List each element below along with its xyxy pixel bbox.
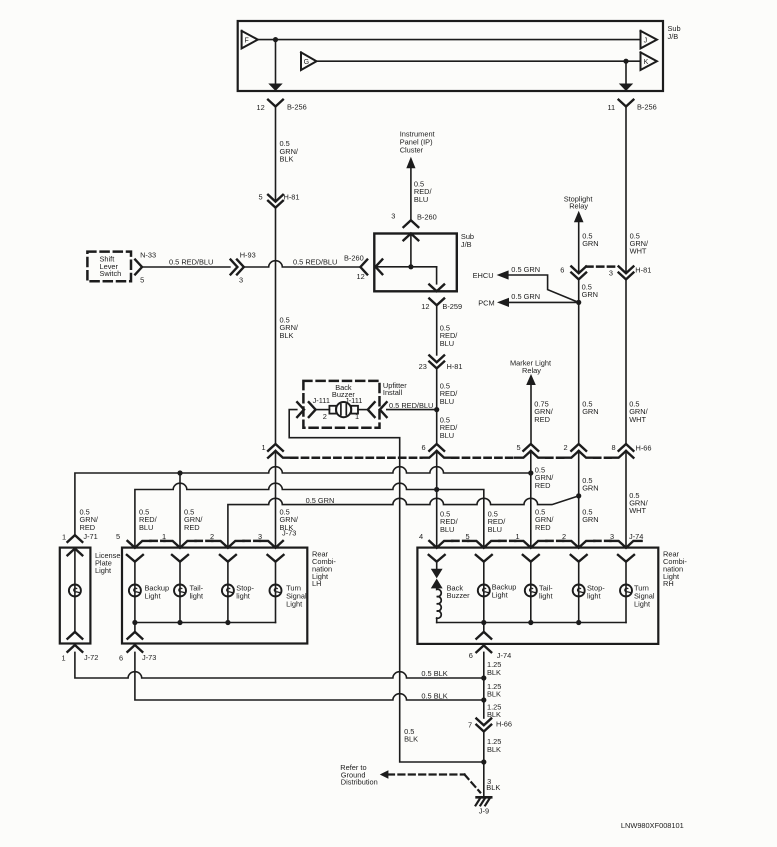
internal connector fork bbox=[127, 555, 143, 562]
shift lever switch (dashed box) bbox=[87, 252, 131, 282]
svg-text:12: 12 bbox=[421, 302, 429, 311]
svg-text:Install: Install bbox=[383, 388, 403, 397]
back buzzer RH (sounder + coil) bbox=[436, 562, 438, 570]
connector 12 B-260 bbox=[360, 260, 367, 275]
wire 0.5 GRN down to EHCU/PCM tap bbox=[578, 279, 580, 443]
wire 0.5 GRN/RED tail-light bus (bus A) bbox=[75, 467, 531, 535]
dashed tie between connector 6 and connector 3 H-81 bbox=[586, 265, 618, 268]
wire 0.5 RED/BLU backup bus (bus B) bbox=[135, 483, 484, 547]
svg-text:0.5 RED/BLU: 0.5 RED/BLU bbox=[389, 401, 433, 410]
svg-text:BLU: BLU bbox=[488, 525, 502, 534]
svg-text:J/B: J/B bbox=[461, 240, 472, 249]
wire 0.5 BLK license ground (bus 1) bbox=[75, 652, 484, 678]
svg-text:H-81: H-81 bbox=[447, 362, 463, 371]
arrow out of Sub J/B at pin 12 bbox=[268, 84, 282, 92]
svg-text:Light: Light bbox=[634, 599, 650, 608]
svg-text:H-81: H-81 bbox=[284, 192, 300, 201]
svg-text:5: 5 bbox=[466, 532, 470, 541]
internal wire up to pin 3 bbox=[410, 234, 412, 267]
svg-text:Distribution: Distribution bbox=[341, 778, 378, 787]
svg-text:5: 5 bbox=[259, 192, 263, 201]
svg-text:BLK: BLK bbox=[280, 154, 294, 163]
svg-text:3: 3 bbox=[391, 212, 395, 221]
connector pin 2 J-74 bbox=[563, 541, 579, 548]
connector 8 H-66 bbox=[619, 444, 634, 451]
wire 0.5 GRN stop bus (bus C) bbox=[228, 496, 579, 547]
svg-text:light: light bbox=[236, 591, 250, 600]
svg-text:BLK: BLK bbox=[486, 783, 500, 792]
svg-text:light: light bbox=[539, 591, 553, 600]
svg-text:J-72: J-72 bbox=[84, 653, 98, 662]
arrow out of Sub J/B at pin 11 bbox=[619, 84, 633, 92]
internal junction dot bbox=[408, 264, 413, 269]
svg-text:BLK: BLK bbox=[280, 331, 294, 340]
arrow out of Sub J/B at pin 3 (up) bbox=[404, 234, 419, 241]
svg-text:0.5 BLK: 0.5 BLK bbox=[421, 692, 447, 701]
svg-text:J/B: J/B bbox=[668, 32, 679, 41]
connector 5 H-81 bbox=[268, 195, 283, 202]
wire 0.5 GRN/BLK from H-81 down to H-66 bbox=[275, 208, 277, 444]
internal connector fork bbox=[571, 555, 587, 562]
svg-text:6: 6 bbox=[560, 265, 564, 274]
svg-text:H-93: H-93 bbox=[240, 251, 256, 260]
wire 0.5 RED/BLU from B-259 to H-81 bbox=[436, 305, 438, 355]
svg-text:3: 3 bbox=[609, 268, 613, 277]
svg-text:GRN: GRN bbox=[582, 484, 598, 493]
internal connector fork bbox=[429, 555, 445, 562]
internal connector fork bbox=[172, 555, 188, 562]
connector 6 H-66 bbox=[429, 444, 444, 451]
junction box Sub J/B (top) bbox=[238, 21, 663, 91]
svg-text:1: 1 bbox=[162, 532, 166, 541]
junction dot ground splice bbox=[481, 759, 486, 764]
svg-text:K: K bbox=[644, 59, 649, 66]
svg-text:Relay: Relay bbox=[522, 366, 541, 375]
svg-text:BLK: BLK bbox=[487, 710, 501, 719]
svg-text:2: 2 bbox=[210, 532, 214, 541]
svg-text:BLK: BLK bbox=[487, 690, 501, 699]
wire 1.25 BLK main ground bbox=[483, 652, 485, 718]
connector pin 2 J-73 bbox=[212, 541, 228, 548]
svg-text:B-256: B-256 bbox=[637, 103, 657, 112]
svg-text:RED: RED bbox=[184, 523, 200, 532]
internal connector fork bbox=[268, 555, 284, 562]
wire H-66 1 to LH turn signal (0.5 GRN/BLK) bbox=[275, 451, 277, 547]
svg-text:0.5 BLK: 0.5 BLK bbox=[421, 669, 447, 678]
connector pin 1 J-73 bbox=[164, 541, 180, 548]
connector pin 5 J-74 bbox=[468, 541, 484, 548]
svg-text:BLU: BLU bbox=[440, 397, 454, 406]
junction dot tail branch LH bbox=[177, 470, 182, 475]
internal wire down to pin 12 bbox=[436, 267, 438, 284]
svg-text:WHT: WHT bbox=[629, 415, 646, 424]
junction dot bus2 to main BLK bbox=[481, 697, 486, 702]
license plate light unit box bbox=[60, 548, 91, 644]
backup light bulb RH bbox=[483, 562, 485, 623]
wire 0.5 RED/BLU from RED/BLU column to buzzer bbox=[387, 409, 437, 411]
svg-text:H-81: H-81 bbox=[635, 265, 651, 274]
connector 1 J-72 (bottom) bbox=[68, 632, 83, 639]
wire 0.5 GRN/BLK from B-256 to H-81 bbox=[275, 107, 277, 202]
svg-text:7: 7 bbox=[468, 720, 472, 729]
svg-text:23: 23 bbox=[419, 362, 427, 371]
connector pin 5 J-73 bbox=[128, 541, 135, 548]
svg-text:0.5 RED/BLU: 0.5 RED/BLU bbox=[293, 257, 337, 266]
RH internal ground bus bbox=[437, 622, 626, 624]
svg-text:WHT: WHT bbox=[630, 247, 647, 256]
junction dot EHCU/PCM tap bbox=[576, 300, 581, 305]
connector 3 H-81 (right column) bbox=[619, 266, 634, 273]
svg-text:8: 8 bbox=[612, 443, 616, 452]
connector N-33 pin 5 bbox=[135, 260, 142, 275]
svg-text:6: 6 bbox=[422, 443, 426, 452]
svg-text:1: 1 bbox=[262, 443, 266, 452]
svg-text:12: 12 bbox=[257, 103, 265, 112]
connector 11 B-256 bbox=[619, 100, 634, 107]
internal wire across Sub J/B bbox=[376, 266, 437, 268]
wire 0.5 RED/BLU from shift lever switch to H-93 bbox=[142, 266, 230, 268]
svg-text:J-73: J-73 bbox=[282, 529, 296, 538]
junction dot on F-J wire bbox=[273, 37, 278, 42]
LH internal ground bus bbox=[135, 622, 276, 624]
svg-text:2: 2 bbox=[323, 412, 327, 421]
wire H-66 2 to RH pin 2 (0.5 GRN) bbox=[578, 451, 580, 547]
svg-text:Cluster: Cluster bbox=[400, 146, 424, 155]
connector pin 3 J-74 bbox=[610, 541, 626, 548]
backup light bulb LH bbox=[129, 585, 141, 597]
svg-text:1: 1 bbox=[62, 653, 66, 662]
connector J-74 row pins 4 5 1 2 3 bbox=[452, 540, 468, 543]
svg-text:6: 6 bbox=[469, 651, 473, 660]
connector triangle J bbox=[641, 31, 657, 49]
LH bottom exit to connector 6 J-73 bbox=[134, 623, 136, 632]
internal connector fork bbox=[476, 555, 492, 562]
svg-text:1: 1 bbox=[516, 532, 520, 541]
connector 3 H-93 bbox=[231, 260, 238, 275]
connector 2 H-66 bbox=[571, 444, 586, 451]
internal connector fork bbox=[220, 555, 236, 562]
svg-text:2: 2 bbox=[562, 532, 566, 541]
wire LH tail-light drop bbox=[179, 473, 181, 547]
tail-light bulb LH bbox=[174, 585, 186, 597]
svg-text:BLU: BLU bbox=[414, 195, 428, 204]
internal connector fork bbox=[618, 555, 634, 562]
rear combination light RH box bbox=[417, 548, 658, 644]
RH bottom exit to connector 6 J-74 bbox=[483, 623, 485, 632]
junction dot stop feed bbox=[576, 493, 581, 498]
connector 23 H-81 bbox=[429, 355, 444, 362]
svg-text:2: 2 bbox=[564, 443, 568, 452]
svg-text:J-71: J-71 bbox=[83, 532, 97, 541]
wire 0.5 RED/BLU from H-81 down to H-66 bbox=[436, 368, 438, 443]
svg-text:5: 5 bbox=[116, 532, 120, 541]
junction dot bus1 to main BLK bbox=[481, 675, 486, 680]
wire F to J bbox=[258, 39, 641, 41]
arrow out of Sub J/B at pin 12 (down) bbox=[429, 285, 444, 292]
junction dot back-buzzer tap bbox=[434, 407, 439, 412]
svg-text:Light: Light bbox=[145, 591, 161, 600]
svg-text:Light: Light bbox=[95, 566, 111, 575]
svg-text:H-66: H-66 bbox=[496, 719, 512, 728]
svg-text:3: 3 bbox=[239, 275, 243, 284]
svg-text:RED: RED bbox=[535, 523, 551, 532]
junction box Sub J/B (small) bbox=[374, 234, 457, 292]
wire down from G-K wire to box edge bbox=[625, 61, 627, 84]
connector pin 1 J-74 bbox=[515, 541, 531, 548]
connector pin 3 J-73 bbox=[260, 541, 276, 548]
svg-text:F: F bbox=[245, 37, 249, 44]
svg-text:LNW980XF008101: LNW980XF008101 bbox=[621, 821, 684, 830]
svg-text:PCM: PCM bbox=[478, 299, 494, 308]
svg-text:BLU: BLU bbox=[440, 339, 454, 348]
arrow to Instrument Panel (IP) Cluster bbox=[406, 157, 415, 169]
svg-text:BLU: BLU bbox=[440, 431, 454, 440]
svg-text:4: 4 bbox=[419, 532, 423, 541]
stop-light bulb RH bbox=[578, 562, 580, 623]
connector triangle F bbox=[242, 31, 258, 49]
svg-text:G: G bbox=[304, 59, 309, 66]
svg-text:5: 5 bbox=[517, 443, 521, 452]
turn signal light bulb LH bbox=[270, 585, 282, 597]
svg-text:3: 3 bbox=[610, 532, 614, 541]
svg-text:0.5 RED/BLU: 0.5 RED/BLU bbox=[169, 258, 213, 267]
wire 0.5 GRN/WHT from B-256 to H-81 bbox=[625, 107, 627, 274]
svg-text:J-74: J-74 bbox=[497, 651, 511, 660]
svg-text:GRN: GRN bbox=[582, 515, 598, 524]
ground J-9 bbox=[477, 796, 492, 799]
svg-text:BLK: BLK bbox=[487, 745, 501, 754]
harness connector row H-66 (dashed tie) bbox=[291, 456, 421, 459]
arrow into Sub J/B from B-260 bbox=[376, 259, 383, 274]
svg-text:light: light bbox=[190, 591, 204, 600]
wire 0.5 RED/BLU from H-93 to B-260 (hops over GRN/BLK wire) bbox=[244, 261, 361, 267]
connector 6 (stoplight relay line) bbox=[571, 266, 586, 273]
svg-text:6: 6 bbox=[119, 653, 123, 662]
wire 0.5 RED/BLU up to IP cluster bbox=[410, 168, 412, 220]
svg-text:Light: Light bbox=[286, 599, 302, 608]
svg-text:light: light bbox=[587, 591, 601, 600]
svg-text:3: 3 bbox=[258, 532, 262, 541]
connector 3 B-260 bbox=[404, 220, 419, 227]
svg-text:B-256: B-256 bbox=[287, 103, 307, 112]
svg-text:0.5 GRN: 0.5 GRN bbox=[306, 496, 335, 505]
turn signal light bulb RH bbox=[625, 562, 627, 623]
svg-text:WHT: WHT bbox=[629, 506, 646, 515]
junction dot on G-K wire bbox=[623, 59, 628, 64]
junction dot tail bus to RH column bbox=[528, 470, 533, 475]
svg-text:RH: RH bbox=[663, 579, 674, 588]
connector 7 H-66 bbox=[476, 719, 491, 726]
svg-text:0.5 GRN: 0.5 GRN bbox=[511, 292, 540, 301]
svg-text:Buzzer: Buzzer bbox=[447, 591, 471, 600]
stop-light bulb LH bbox=[222, 585, 234, 597]
svg-text:EHCU: EHCU bbox=[473, 271, 494, 280]
wire G to K bbox=[317, 60, 641, 62]
svg-text:BLK: BLK bbox=[404, 735, 418, 744]
svg-text:BLU: BLU bbox=[440, 525, 454, 534]
svg-text:BLK: BLK bbox=[487, 668, 501, 677]
svg-text:Light: Light bbox=[492, 590, 508, 599]
svg-text:Relay: Relay bbox=[569, 202, 588, 211]
tail-light bulb RH bbox=[530, 562, 532, 623]
svg-text:H-66: H-66 bbox=[636, 443, 652, 452]
license plate light bulb bbox=[69, 585, 81, 597]
svg-text:GRN: GRN bbox=[582, 407, 598, 416]
svg-text:RED: RED bbox=[534, 415, 550, 424]
svg-text:RED: RED bbox=[80, 523, 96, 532]
svg-text:GRN: GRN bbox=[582, 290, 598, 299]
wire 0.5 GRN/WHT from H-81 down to H-66 bbox=[625, 279, 627, 443]
svg-text:11: 11 bbox=[608, 103, 616, 112]
wire 0.5 GRN from stoplight relay to connector bbox=[578, 222, 580, 274]
wire H-66 5 to RH pin 1 (0.5 GRN/RED) bbox=[530, 451, 532, 547]
svg-text:N-33: N-33 bbox=[140, 251, 156, 260]
svg-text:B-260: B-260 bbox=[344, 253, 364, 262]
svg-text:B-259: B-259 bbox=[442, 302, 462, 311]
connector triangle G bbox=[301, 52, 317, 70]
svg-text:J-73: J-73 bbox=[142, 653, 156, 662]
svg-text:J-111: J-111 bbox=[313, 396, 330, 405]
connector J-73 row pins 5 1 2 3 bbox=[151, 540, 165, 543]
wire 0.75 GRN/RED from marker light relay to H-66 bbox=[530, 385, 532, 444]
wire H-66 6 to RH pin 4 (0.5 RED/BLU) bbox=[436, 451, 438, 547]
license lamp wire bbox=[74, 549, 76, 632]
svg-text:J-74: J-74 bbox=[629, 532, 643, 541]
connector J-111 pin 2 (left) bbox=[309, 402, 316, 417]
svg-text:5: 5 bbox=[140, 276, 144, 285]
svg-text:RED: RED bbox=[535, 481, 551, 490]
svg-text:GRN: GRN bbox=[582, 239, 598, 248]
connector 5 H-66 bbox=[523, 444, 538, 451]
buzzer ground wire 0.5 BLK down the page bbox=[289, 410, 484, 762]
svg-text:BLU: BLU bbox=[139, 523, 153, 532]
connector J-111 pin 1 (right) bbox=[380, 402, 387, 417]
svg-text:Switch: Switch bbox=[100, 269, 122, 278]
refer to ground distribution (dashed) bbox=[388, 773, 465, 775]
svg-text:1: 1 bbox=[62, 533, 66, 542]
junction dot backup feed bbox=[434, 487, 439, 492]
rear combination light LH box bbox=[122, 548, 307, 644]
connector 12 B-259 bbox=[429, 299, 444, 306]
wire H-66 8 to RH pin 3 (0.5 GRN/WHT) bbox=[625, 451, 627, 547]
svg-text:0.5 GRN: 0.5 GRN bbox=[511, 265, 540, 274]
wire 1.25 BLK to ground splice bbox=[483, 732, 485, 798]
connector 1 J-71 (license plate light) bbox=[68, 535, 83, 542]
wire 0.5 BLK LH ground (bus 2) bbox=[135, 652, 484, 700]
back buzzer (upfitter) bbox=[358, 409, 368, 411]
connector pin 4 J-74 bbox=[429, 541, 436, 548]
svg-text:J: J bbox=[644, 37, 648, 44]
connector 1 H-66 bbox=[268, 444, 283, 451]
connector 12 B-256 bbox=[268, 100, 283, 107]
svg-text:J-9: J-9 bbox=[479, 806, 489, 815]
internal connector fork bbox=[523, 555, 539, 562]
svg-text:LH: LH bbox=[312, 579, 321, 588]
svg-text:12: 12 bbox=[357, 272, 365, 281]
upfitter install dashed box bbox=[303, 381, 379, 428]
svg-text:B-260: B-260 bbox=[417, 212, 437, 221]
wire down from F-J wire to box edge bbox=[275, 40, 277, 84]
connector triangle K bbox=[641, 52, 657, 70]
